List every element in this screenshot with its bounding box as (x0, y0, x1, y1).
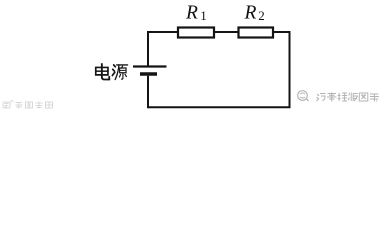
svg-text:R: R (244, 2, 257, 23)
battery short plate (negative terminal) (140, 72, 157, 75)
svg-text:R: R (185, 2, 198, 23)
watermark (bottom left), faint logo + text (3, 101, 53, 109)
battery long plate (positive terminal) (133, 65, 167, 67)
wire: top-left segment from battery up and right to R1 (148, 32, 177, 66)
watermark text 汽车维修图书 (bottom right), pseudo-glyphs (317, 93, 379, 102)
svg-text:2: 2 (258, 8, 265, 23)
label 电源 (power source), hand-drawn glyphs (96, 64, 128, 79)
wire: top-right corner, right side and bottom of loop (148, 32, 290, 107)
resistor R2 (239, 28, 274, 38)
wire: segment between R1 and R2 (215, 31, 238, 33)
svg-text:1: 1 (200, 8, 207, 23)
watermark logo circle (bottom right) (298, 91, 309, 101)
wire: lower-left vertical from battery down to bottom wire (147, 76, 149, 109)
resistor R1 (178, 28, 214, 38)
